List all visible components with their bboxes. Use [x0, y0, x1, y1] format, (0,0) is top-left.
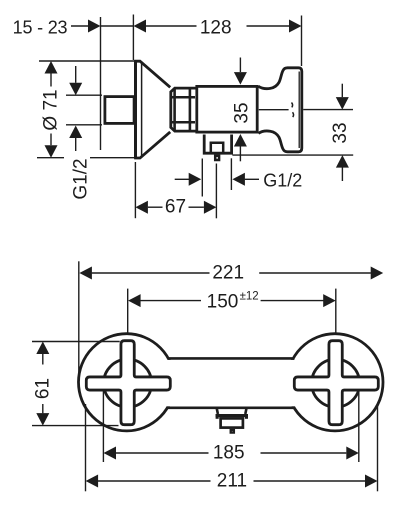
- svg-text:Ø 71: Ø 71: [41, 89, 62, 130]
- svg-text:15 - 23: 15 - 23: [13, 18, 68, 38]
- svg-text:±12: ±12: [240, 290, 259, 302]
- svg-text:33: 33: [330, 122, 351, 143]
- svg-text:150: 150: [207, 291, 239, 312]
- svg-text:128: 128: [200, 18, 232, 39]
- svg-text:67: 67: [165, 197, 186, 218]
- svg-text:221: 221: [212, 262, 244, 283]
- svg-text:185: 185: [213, 443, 245, 464]
- svg-text:G1/2: G1/2: [71, 158, 92, 199]
- svg-text:G1/2: G1/2: [263, 171, 302, 191]
- svg-text:35: 35: [232, 102, 253, 123]
- svg-text:61: 61: [32, 378, 53, 399]
- svg-text:211: 211: [217, 471, 247, 492]
